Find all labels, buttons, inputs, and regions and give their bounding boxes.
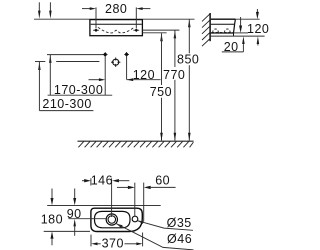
svg-text:20: 20: [224, 40, 239, 54]
svg-text:146: 146: [91, 173, 113, 187]
svg-text:Ø46: Ø46: [167, 232, 192, 246]
svg-text:170-300: 170-300: [54, 83, 103, 97]
svg-text:120: 120: [133, 68, 155, 82]
svg-text:Ø35: Ø35: [167, 216, 192, 230]
svg-text:60: 60: [155, 174, 170, 188]
svg-text:280: 280: [105, 2, 127, 16]
svg-text:770: 770: [163, 68, 185, 82]
svg-text:850: 850: [177, 53, 199, 67]
svg-text:210-300: 210-300: [42, 97, 91, 111]
svg-text:370: 370: [102, 237, 124, 250]
svg-text:180: 180: [41, 213, 63, 227]
svg-text:120: 120: [247, 22, 269, 36]
svg-text:750: 750: [150, 85, 172, 99]
